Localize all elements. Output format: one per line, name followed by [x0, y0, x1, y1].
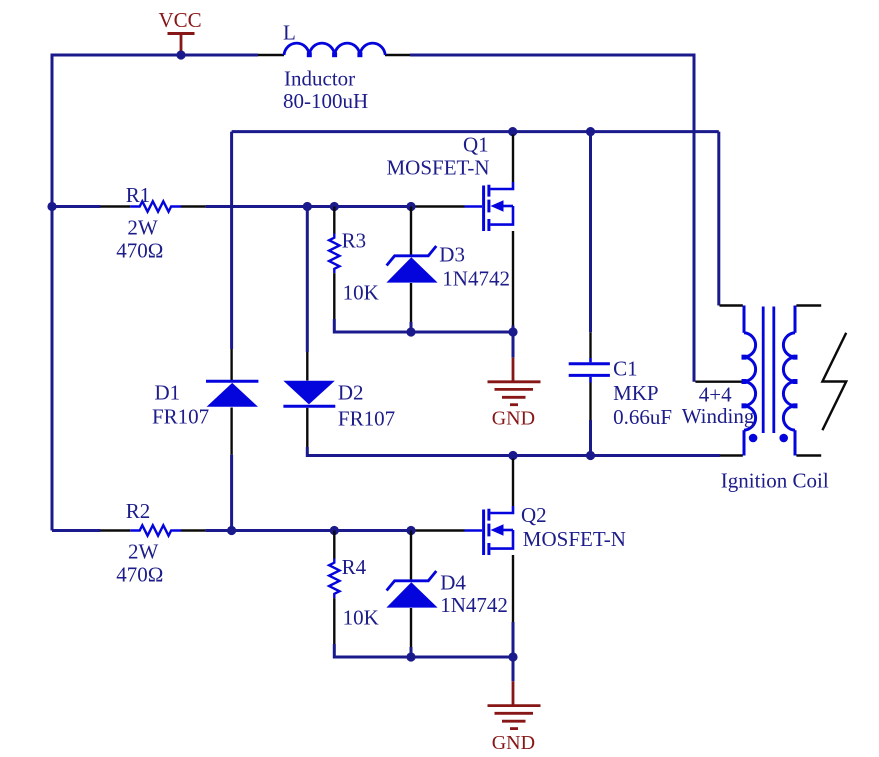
wire D1 column lower — [230, 455, 233, 531]
svg-text:470Ω: 470Ω — [116, 239, 163, 263]
wire secondary top stub — [796, 304, 821, 306]
wire top rail right down to center tap — [410, 55, 694, 382]
junction D2 top — [303, 202, 312, 211]
svg-text:MOSFET-N: MOSFET-N — [523, 527, 626, 551]
svg-text:2W: 2W — [128, 540, 159, 564]
diode D2 — [283, 352, 395, 447]
resistor R3 — [329, 207, 379, 320]
junction VCC — [176, 50, 185, 59]
svg-text:FR107: FR107 — [338, 407, 395, 431]
svg-text:C1: C1 — [613, 357, 638, 381]
svg-text:R2: R2 — [126, 499, 151, 523]
junction Q2 drain — [508, 451, 517, 460]
wire R2 rail right — [205, 529, 411, 532]
svg-text:R3: R3 — [342, 229, 367, 253]
polarity dot secondary — [779, 434, 788, 443]
diode D1 — [152, 349, 258, 455]
wire transformer primary top feed — [717, 132, 720, 306]
wire R4 bottom rail — [334, 644, 513, 657]
wire left vertical and top rail left — [52, 55, 258, 531]
svg-text:1N4742: 1N4742 — [440, 593, 508, 617]
svg-text:VCC: VCC — [159, 8, 202, 32]
junction Q1 drain — [508, 127, 517, 136]
svg-text:1N4742: 1N4742 — [442, 267, 510, 291]
junction GND1 — [508, 327, 517, 336]
junction D1 bottom — [227, 526, 236, 535]
svg-text:Winding: Winding — [682, 404, 755, 428]
mosfet Q1 — [387, 132, 514, 231]
wire primary bottom stub — [720, 454, 743, 456]
junction R4 top — [330, 526, 339, 535]
svg-text:GND: GND — [492, 732, 535, 754]
resistor R1 — [101, 183, 206, 263]
svg-text:10K: 10K — [343, 281, 379, 305]
svg-text:R4: R4 — [342, 555, 367, 579]
wire Q1 drain pin — [512, 135, 514, 183]
resistor R4 — [329, 531, 379, 645]
svg-text:D1: D1 — [155, 381, 181, 405]
wire Q1 source pin — [512, 231, 514, 332]
junction GND2 — [508, 652, 517, 661]
svg-text:Inductor: Inductor — [284, 67, 355, 91]
svg-text:Q2: Q2 — [521, 503, 547, 527]
transformer primary winding — [742, 306, 756, 456]
inductor L — [258, 21, 410, 114]
svg-text:FR107: FR107 — [152, 405, 209, 429]
wire R3 bottom rail — [334, 319, 513, 332]
transformer core — [763, 307, 774, 434]
junction C1 bottom — [586, 451, 595, 460]
wire D2 column upper — [306, 207, 309, 353]
svg-text:D4: D4 — [440, 571, 466, 595]
transformer labels — [682, 383, 829, 493]
resistor R2 — [52, 499, 205, 587]
transformer secondary winding — [783, 306, 797, 456]
wire primary top stub — [720, 304, 743, 306]
ground GND1 — [488, 332, 541, 430]
svg-text:Q1: Q1 — [463, 132, 489, 156]
wire Q2 drain pin — [512, 459, 514, 507]
wire R1 rail right — [205, 205, 411, 208]
junction R3 top — [330, 202, 339, 211]
svg-text:L: L — [283, 21, 296, 45]
junction left rail R1 — [47, 202, 56, 211]
zener D4 — [386, 531, 507, 658]
wire Q1 gate pin — [411, 205, 465, 207]
zener D3 — [386, 207, 510, 333]
svg-text:0.66uF: 0.66uF — [613, 405, 672, 429]
wire center tap stub — [695, 381, 742, 383]
mosfet Q2 — [465, 503, 626, 555]
spark gap — [822, 333, 846, 430]
svg-text:4+4: 4+4 — [699, 383, 732, 407]
wire D1 column upper — [230, 132, 233, 349]
power VCC — [159, 8, 202, 55]
svg-text:470Ω: 470Ω — [116, 563, 163, 587]
polarity dot primary — [749, 434, 758, 443]
junction D4 bottom — [406, 652, 415, 661]
svg-text:10K: 10K — [343, 606, 379, 630]
svg-text:R1: R1 — [126, 183, 151, 207]
junction D3 top — [406, 202, 415, 211]
wire R1 rail left stub — [52, 205, 101, 208]
junction D4 top — [406, 526, 415, 535]
junction D3 bottom — [406, 327, 415, 336]
junction C1 top — [586, 127, 595, 136]
capacitor C1 — [569, 132, 672, 456]
wire secondary bottom stub — [796, 454, 821, 456]
wire bottom mid rail — [307, 447, 720, 456]
wire Q2 gate pin — [411, 529, 465, 531]
wire Q2 source pin — [512, 555, 514, 657]
svg-text:Ignition Coil: Ignition Coil — [721, 469, 829, 493]
svg-text:GND: GND — [492, 408, 535, 430]
svg-text:D3: D3 — [439, 243, 465, 267]
svg-text:MOSFET-N: MOSFET-N — [387, 156, 490, 180]
wire Q1 drain rail — [232, 130, 719, 133]
svg-text:80-100uH: 80-100uH — [283, 89, 368, 113]
svg-text:D2: D2 — [338, 381, 364, 405]
svg-text:2W: 2W — [127, 216, 157, 240]
svg-text:MKP: MKP — [613, 381, 659, 405]
ground GND2 — [488, 657, 541, 754]
